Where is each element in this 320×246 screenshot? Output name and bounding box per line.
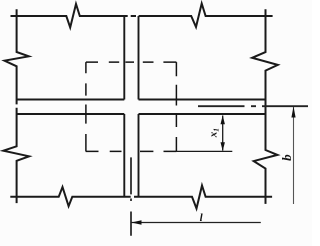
svg-text:b: b (279, 154, 294, 161)
